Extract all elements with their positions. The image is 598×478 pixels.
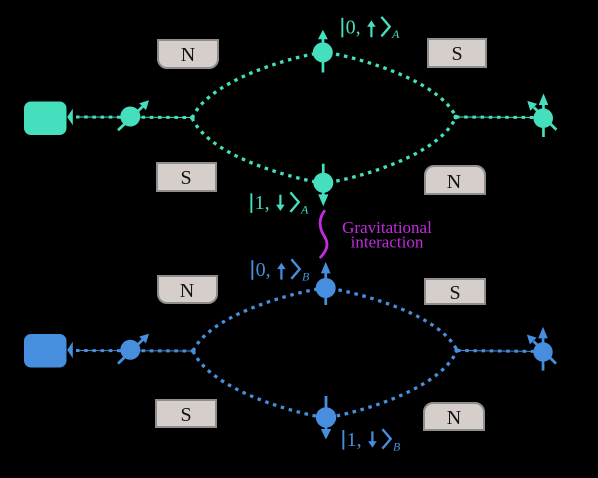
svg-text:S: S — [451, 43, 462, 65]
svg-text:1,: 1, — [255, 192, 270, 214]
svg-text:B: B — [302, 270, 310, 284]
svg-text:N: N — [180, 280, 194, 302]
svg-text:S: S — [180, 167, 191, 189]
svg-text:N: N — [181, 44, 195, 66]
svg-text:interaction: interaction — [351, 233, 424, 252]
svg-text:B: B — [393, 439, 401, 453]
svg-text:A: A — [300, 203, 309, 217]
svg-text:0,: 0, — [346, 17, 361, 39]
svg-text:S: S — [180, 404, 191, 426]
svg-text:0,: 0, — [256, 259, 271, 281]
svg-text:N: N — [447, 407, 461, 429]
svg-text:S: S — [449, 282, 460, 304]
svg-text:A: A — [391, 27, 400, 41]
svg-text:1,: 1, — [347, 429, 362, 451]
svg-text:N: N — [447, 171, 461, 193]
